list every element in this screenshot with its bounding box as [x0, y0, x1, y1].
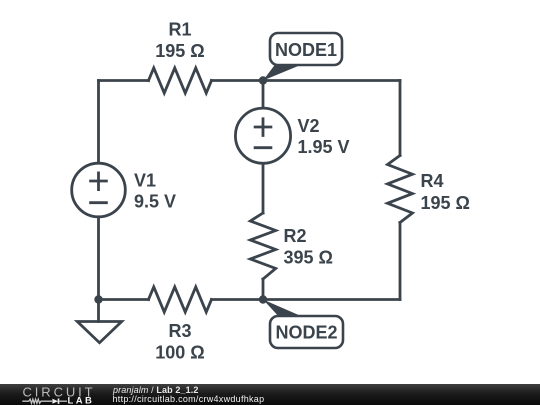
svg-text:V2: V2 — [298, 116, 320, 136]
wire ground stub — [97, 300, 100, 322]
svg-text:195 Ω: 195 Ω — [421, 193, 470, 213]
svg-text:R1: R1 — [168, 20, 191, 40]
label box NODE2 — [270, 316, 343, 348]
wire bottom-left (R3 to ground junction) — [99, 298, 149, 301]
svg-text:R4: R4 — [421, 171, 444, 191]
CircuitLab logo — [21, 385, 101, 405]
node dot ground junction — [94, 295, 102, 303]
svg-text:1.95 V: 1.95 V — [298, 137, 350, 157]
node dot NODE1 — [259, 76, 267, 84]
callout pointer NODE1 — [263, 65, 300, 80]
resistor R3 — [149, 287, 212, 312]
wire top-right (R1 to NODE1 to top-right corner) — [212, 79, 401, 82]
svg-text:NODE2: NODE2 — [275, 323, 337, 343]
wire top-left (corner to R1) — [99, 79, 149, 82]
svg-text:395 Ω: 395 Ω — [284, 248, 333, 268]
ground — [77, 322, 121, 343]
svg-text:195 Ω: 195 Ω — [155, 41, 204, 61]
callout pointer NODE2 — [263, 300, 302, 317]
voltage source V2 — [235, 108, 290, 163]
resistor R1 — [149, 68, 212, 93]
svg-text:100 Ω: 100 Ω — [155, 343, 204, 363]
resistor R4 — [388, 156, 413, 223]
footer bar — [0, 384, 540, 405]
footer attribution — [113, 385, 198, 395]
svg-text:NODE1: NODE1 — [275, 40, 337, 60]
svg-text:V1: V1 — [134, 171, 156, 191]
svg-text:9.5 V: 9.5 V — [134, 192, 176, 212]
wire bottom-right (corner to NODE2) — [212, 298, 401, 301]
wire NODE1 to V2 top — [262, 81, 265, 109]
wire right lower (R4 to bottom-right corner) — [399, 223, 402, 300]
resistor R2 — [250, 213, 275, 279]
wire V2 bottom to R2 — [262, 163, 265, 213]
svg-text:LAB: LAB — [68, 395, 95, 405]
voltage source V1 — [72, 163, 126, 217]
wire R2 to NODE2 — [262, 279, 265, 300]
wire right upper (corner to R4) — [399, 81, 402, 156]
wire left vertical bottom (V1 bottom to ground junction) — [97, 217, 100, 300]
node dot NODE2 — [259, 295, 267, 303]
svg-text:R3: R3 — [168, 321, 191, 341]
wire left vertical (V1 top to top-left corner) — [97, 81, 100, 164]
label box NODE1 — [270, 33, 342, 65]
svg-text:R2: R2 — [284, 226, 307, 246]
